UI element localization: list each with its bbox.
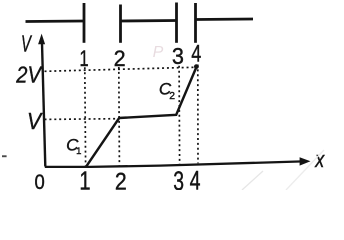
wire right lead bbox=[196, 18, 254, 21]
dotted vertical at x=4 bbox=[197, 65, 199, 164]
dotted vertical at x=1 bbox=[84, 67, 87, 165]
svg-text:2V: 2V bbox=[15, 61, 43, 88]
dotted vertical at x=3 bbox=[178, 66, 181, 164]
wire between capacitors bbox=[121, 19, 177, 22]
svg-text:2: 2 bbox=[115, 167, 127, 190]
wire left lead bbox=[26, 20, 85, 23]
curve peak blob bbox=[194, 64, 199, 69]
svg-text:4: 4 bbox=[191, 41, 201, 67]
svg-text:V: V bbox=[21, 31, 32, 57]
V(x) curve bbox=[86, 67, 197, 167]
svg-text:4: 4 bbox=[190, 165, 201, 190]
capacitor C2 plate 4 bbox=[194, 3, 197, 43]
capacitor C2 plate 3 bbox=[175, 3, 178, 43]
capacitor C1 plate 1 bbox=[83, 3, 86, 43]
svg-text:1: 1 bbox=[76, 146, 81, 157]
stray mark left edge bbox=[2, 155, 7, 157]
svg-text:V: V bbox=[27, 108, 43, 134]
dotted line at 2V level bbox=[45, 67, 198, 71]
svg-text:3: 3 bbox=[172, 44, 184, 70]
x axis bbox=[45, 161, 303, 167]
svg-text:3: 3 bbox=[173, 166, 184, 190]
svg-text:x: x bbox=[314, 148, 325, 172]
x-axis arrowhead bbox=[300, 157, 311, 165]
dotted line at V level bbox=[45, 118, 119, 121]
y-axis arrowhead bbox=[38, 34, 45, 45]
svg-text:1: 1 bbox=[79, 166, 90, 190]
svg-text:2: 2 bbox=[169, 91, 175, 102]
svg-text:0: 0 bbox=[35, 171, 45, 190]
dotted vertical at x=2 bbox=[118, 67, 121, 165]
faint scratch bottom bbox=[242, 171, 263, 190]
V axis (y-axis) bbox=[42, 43, 45, 167]
svg-text:P: P bbox=[153, 44, 164, 61]
capacitor C1 plate 2 bbox=[119, 5, 122, 43]
